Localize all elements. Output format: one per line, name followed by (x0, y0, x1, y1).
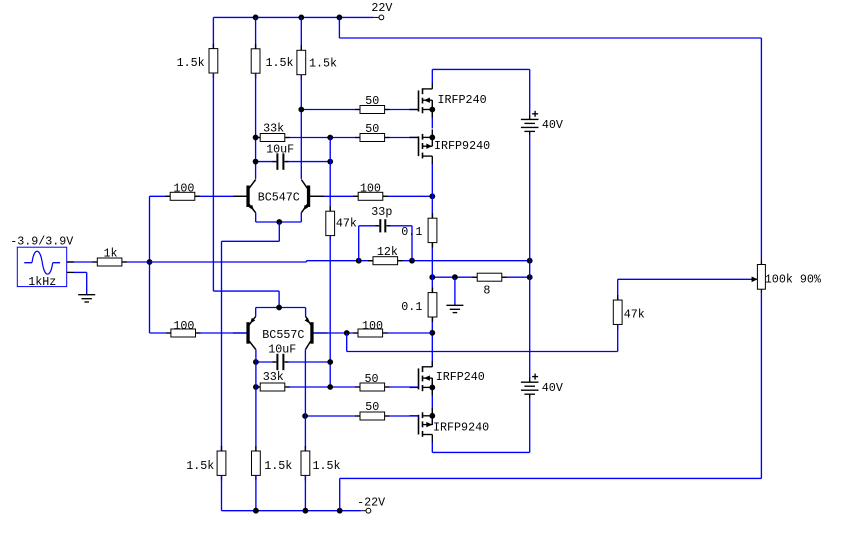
svg-text:1.5k: 1.5k (309, 57, 337, 71)
svg-text:47k: 47k (336, 216, 357, 230)
svg-text:33k: 33k (263, 370, 284, 384)
svg-text:22V: 22V (371, 1, 392, 15)
svg-text:50: 50 (365, 372, 379, 386)
svg-text:33p: 33p (371, 205, 392, 219)
svg-text:IRFP9240: IRFP9240 (433, 421, 489, 435)
svg-text:1.5k: 1.5k (313, 459, 341, 473)
svg-text:12k: 12k (377, 245, 398, 259)
svg-text:-3.9/3.9V: -3.9/3.9V (10, 235, 73, 249)
svg-text:33k: 33k (263, 122, 284, 136)
svg-text:IRFP240: IRFP240 (438, 93, 487, 107)
svg-text:50: 50 (365, 400, 379, 414)
svg-text:1.5k: 1.5k (266, 56, 294, 70)
svg-text:100: 100 (173, 319, 194, 333)
svg-text:40V: 40V (542, 381, 563, 395)
svg-text:1kHz: 1kHz (28, 275, 56, 289)
svg-text:0.1: 0.1 (401, 300, 422, 314)
svg-text:BC547C: BC547C (258, 191, 300, 205)
svg-text:IRFP240: IRFP240 (436, 370, 485, 384)
svg-text:50: 50 (365, 94, 379, 108)
svg-text:8: 8 (483, 283, 490, 297)
svg-text:10uF: 10uF (268, 343, 296, 357)
svg-text:-22V: -22V (357, 495, 385, 509)
svg-text:IRFP9240: IRFP9240 (434, 139, 490, 153)
svg-text:40V: 40V (542, 118, 563, 132)
svg-text:47k: 47k (624, 307, 645, 321)
svg-text:1k: 1k (104, 246, 118, 260)
svg-text:0.1: 0.1 (401, 225, 422, 239)
svg-text:1.5k: 1.5k (186, 459, 214, 473)
svg-text:1.5k: 1.5k (177, 56, 205, 70)
svg-text:BC557C: BC557C (262, 328, 304, 342)
svg-text:100: 100 (360, 182, 381, 196)
svg-text:100: 100 (173, 182, 194, 196)
svg-text:1.5k: 1.5k (264, 459, 292, 473)
svg-text:100: 100 (362, 319, 383, 333)
svg-text:10uF: 10uF (266, 143, 294, 157)
svg-text:50: 50 (365, 122, 379, 136)
svg-text:100k 90%: 100k 90% (765, 273, 822, 287)
